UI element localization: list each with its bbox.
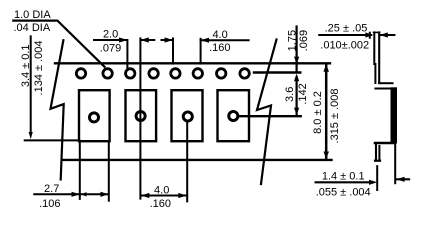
- profile left wall lower: [374, 64, 376, 83]
- svg-text:2.0: 2.0: [103, 28, 118, 40]
- arrowhead 3.6 up: [294, 74, 299, 82]
- arrowhead 2.7 second blob: [81, 192, 87, 196]
- right break line: [257, 40, 277, 185]
- svg-text:.069: .069: [298, 30, 310, 51]
- arrowhead 2.0 right: [119, 37, 127, 42]
- dimension 4.0 top extension line: [200, 39, 202, 64]
- pocket1 right extension line: [108, 143, 110, 201]
- tape bottom edge: [62, 159, 332, 161]
- sprocket hole center leader line: [254, 71, 300, 73]
- dimension extension line pocket2 center top: [139, 38, 141, 63]
- svg-text:.106: .106: [39, 198, 60, 210]
- svg-text:.25 ± .05: .25 ± .05: [325, 23, 368, 35]
- profile foot top bar: [375, 142, 395, 145]
- profile foot inner wall: [378, 146, 380, 160]
- arrowhead 8.0 up: [323, 64, 329, 71]
- dimension .25 underline and left arrow line: [319, 34, 371, 36]
- dimension .25 right arrow tail: [381, 34, 395, 36]
- svg-text:1.0 DIA: 1.0 DIA: [14, 9, 51, 21]
- svg-text:.160: .160: [150, 198, 171, 210]
- pocket hole center leader line: [239, 115, 301, 117]
- svg-text:8.0 ± 0.2: 8.0 ± 0.2: [312, 91, 324, 134]
- svg-text:3.4 ± 0.1: 3.4 ± 0.1: [20, 44, 32, 87]
- pocket 3: [172, 90, 203, 141]
- pocket1 left extension line: [79, 143, 81, 199]
- dimension 1.4 underline and left arrow line: [316, 181, 370, 183]
- sprocket hole 8: [240, 69, 249, 78]
- dimension 3.6 line: [296, 77, 298, 115]
- arrowhead mid-dim left: [140, 37, 148, 42]
- profile top cap: [374, 31, 380, 33]
- svg-text:.315 ± .008: .315 ± .008: [329, 89, 341, 144]
- arrowhead 2.7 first: [72, 192, 80, 197]
- pocket 2 component hole: [136, 111, 145, 120]
- pocket3 center extension line: [186, 121, 188, 201]
- svg-text:.160: .160: [209, 42, 230, 54]
- arrowhead mid-dim right: [165, 37, 173, 42]
- dimension 4.0 top tail line: [201, 39, 249, 41]
- arrowhead 3.6 down: [294, 108, 299, 116]
- profile step upper line: [379, 82, 392, 84]
- sprocket hole 1: [76, 69, 85, 78]
- dimension .25 tick: [369, 33, 371, 38]
- dimension 3.4 line: [30, 36, 32, 134]
- arrowhead 2.7 third: [100, 192, 108, 197]
- dimension 4.0 bottom line: [141, 195, 187, 197]
- arrowhead 1.4 right: [369, 180, 377, 185]
- arrowhead 1.4 left: [396, 177, 404, 182]
- dimension 1.4 left extension line: [376, 166, 378, 190]
- leader line for 1.0 DIA label: [13, 21, 104, 67]
- dimension extension line at x173: [172, 38, 174, 63]
- dimension 8.0 line: [325, 66, 328, 158]
- svg-text:.134 ± .004: .134 ± .004: [33, 41, 45, 96]
- pocket 1: [79, 90, 110, 141]
- pocket2 center extension line bottom: [139, 64, 141, 199]
- pocket bottom extension line left: [25, 139, 80, 141]
- profile left wall upper: [373, 32, 375, 64]
- profile extension line right: [394, 144, 396, 184]
- sprocket hole 5: [171, 69, 180, 78]
- pocket 3 component hole: [183, 112, 192, 121]
- profile right wall: [378, 32, 380, 83]
- arrowhead 1.75 down: [294, 57, 299, 65]
- pocket 2: [126, 90, 157, 141]
- svg-text:.055 ± .004: .055 ± .004: [316, 186, 371, 198]
- arrowhead 3.4 down: [29, 132, 33, 139]
- pocket 4: [218, 90, 250, 141]
- dimension 1.4 right arrow tail: [396, 178, 409, 180]
- arrowhead 4.0 top left: [201, 38, 209, 43]
- svg-text:4.0: 4.0: [154, 184, 169, 196]
- arrowhead 8.0 down: [323, 152, 329, 159]
- svg-text:2.7: 2.7: [44, 183, 59, 195]
- sprocket hole 3: [126, 69, 135, 78]
- dimension 1.75 line with down arrow: [296, 27, 298, 73]
- profile foot bottom: [375, 160, 380, 162]
- svg-text:4.0: 4.0: [212, 29, 227, 41]
- svg-text:.079: .079: [100, 42, 121, 54]
- sprocket hole 2: [103, 69, 112, 78]
- pocket 1 component hole: [89, 113, 98, 122]
- dimension 2.0 line: [94, 39, 126, 41]
- profile foot outer wall: [375, 143, 377, 161]
- left break line: [51, 40, 64, 179]
- arrowhead .25 right: [365, 32, 373, 37]
- profile pocket thick wall: [391, 87, 398, 143]
- arrowhead 4.0 bottom left: [141, 193, 149, 198]
- svg-text:.04 DIA: .04 DIA: [14, 22, 51, 34]
- svg-text:.010±.002: .010±.002: [320, 40, 369, 52]
- pocket 4 component hole: [229, 111, 238, 120]
- dimension arrow tail right at x173: [162, 39, 174, 41]
- dimension arrow tail left at pocket2 center: [140, 39, 154, 41]
- profile step lower line: [375, 88, 391, 90]
- svg-text:.142: .142: [297, 83, 309, 104]
- tape top edge: [55, 62, 330, 64]
- svg-text:1.75: 1.75: [287, 30, 299, 51]
- arrowhead 4.0 bottom right: [178, 193, 186, 198]
- dimension 2.7 line: [34, 193, 107, 195]
- svg-text:1.4 ± 0.1: 1.4 ± 0.1: [322, 170, 365, 182]
- arrowhead .25 left: [380, 32, 388, 37]
- svg-text:3.6: 3.6: [284, 87, 296, 102]
- dimension 2.0 extension line (hole 3 center): [126, 40, 128, 68]
- sprocket hole 6: [193, 69, 202, 78]
- sprocket hole 4: [149, 69, 158, 78]
- sprocket hole 7: [217, 69, 226, 78]
